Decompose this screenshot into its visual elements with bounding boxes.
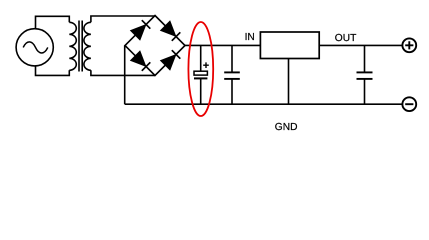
negative bottom rail wire: [125, 103, 403, 105]
transformer core line 2: [81, 21, 83, 72]
wire secondary top to bridge node T: [91, 16, 155, 22]
capacitor C1 top lead: [200, 45, 202, 71]
plus terminal cross: [405, 41, 413, 49]
transformer core line 1: [78, 21, 80, 72]
diode D1 cathode bar: [142, 20, 151, 29]
capacitor C3 top lead: [364, 45, 366, 72]
wire secondary bottom to bridge node B: [91, 70, 155, 75]
svg-text:IN: IN: [245, 32, 255, 43]
svg-text:OUT: OUT: [335, 33, 357, 44]
capacitor C2 top lead: [231, 45, 233, 72]
transformer T1 secondary winding: [84, 22, 91, 70]
plus output terminal: [402, 38, 416, 52]
diode D2 triangle: [161, 22, 175, 36]
sine wave inside source: [23, 42, 48, 53]
capacitor C2 bottom lead: [231, 79, 233, 104]
regulator GND lead: [288, 59, 290, 105]
diode D3 triangle: [131, 52, 145, 66]
wire regulator OUT to plus terminal: [319, 44, 402, 46]
red highlight ellipse around C1: [188, 22, 213, 116]
AC source V1: [16, 29, 53, 66]
wire source bottom to primary: [36, 66, 70, 76]
diode D3 cathode bar: [142, 62, 151, 71]
diode D4 triangle: [161, 55, 175, 69]
capacitor C1 plus sign: [203, 62, 209, 68]
wire source top to primary: [36, 16, 70, 29]
diode D1 triangle: [131, 25, 145, 39]
diode D4 cathode bar: [172, 50, 181, 59]
capacitor C3 bottom lead: [364, 79, 366, 104]
wire node R to regulator IN: [185, 44, 260, 46]
regulator U1 box: [260, 32, 319, 59]
capacitor C1 positive plate: [194, 71, 207, 75]
capacitor C1 negative plate: [194, 77, 207, 79]
capacitor C2 bottom plate: [224, 78, 240, 80]
transformer T1 primary winding: [69, 22, 76, 70]
capacitor C2 top plate: [224, 71, 240, 73]
capacitor C3 top plate: [357, 71, 373, 73]
diode D2 cathode bar: [172, 32, 181, 41]
capacitor C1 bottom lead: [200, 78, 202, 104]
svg-text:GND: GND: [275, 122, 298, 133]
minus output terminal: [402, 97, 416, 111]
bridge rectifier diamond outline: [125, 16, 185, 76]
minus terminal dash: [405, 103, 413, 105]
capacitor C3 bottom plate: [357, 78, 373, 80]
wire node L down to negative rail: [124, 46, 126, 105]
